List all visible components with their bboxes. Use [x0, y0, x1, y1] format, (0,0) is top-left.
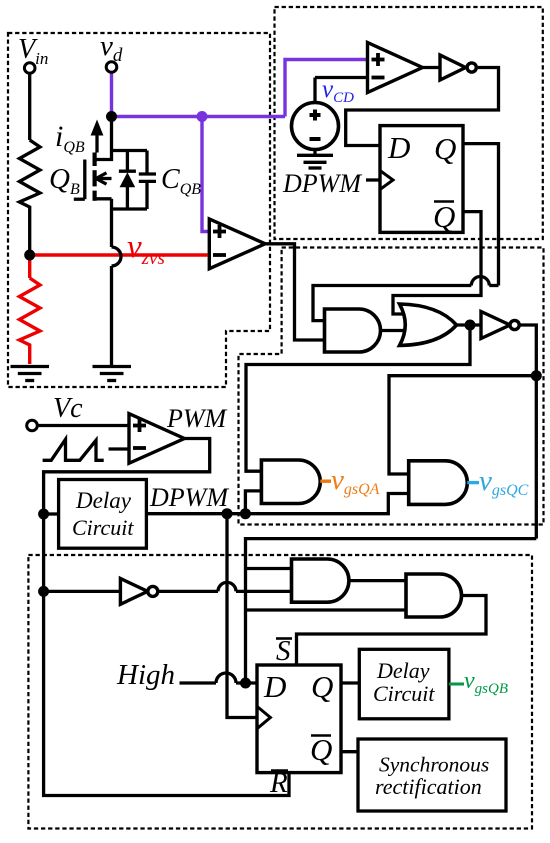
- svg-text:DPWM: DPWM: [149, 483, 229, 512]
- svg-text:Synchronous: Synchronous: [379, 753, 489, 777]
- svg-text:DPWM: DPWM: [282, 169, 362, 198]
- svg-text:Q: Q: [433, 199, 455, 234]
- svg-text:Q: Q: [311, 669, 333, 704]
- svg-text:High: High: [116, 659, 175, 691]
- svg-text:Circuit: Circuit: [72, 515, 134, 540]
- svg-text:D: D: [263, 669, 286, 704]
- svg-text:rectification: rectification: [375, 774, 482, 799]
- svg-text:Delay: Delay: [376, 658, 430, 683]
- svg-text:Q: Q: [434, 131, 456, 166]
- svg-text:Delay: Delay: [75, 488, 132, 513]
- svg-text:PWM: PWM: [166, 404, 228, 433]
- svg-text:Vc: Vc: [53, 393, 83, 424]
- svg-text:Q: Q: [310, 732, 332, 767]
- svg-text:Circuit: Circuit: [373, 681, 435, 706]
- svg-text:D: D: [387, 130, 410, 165]
